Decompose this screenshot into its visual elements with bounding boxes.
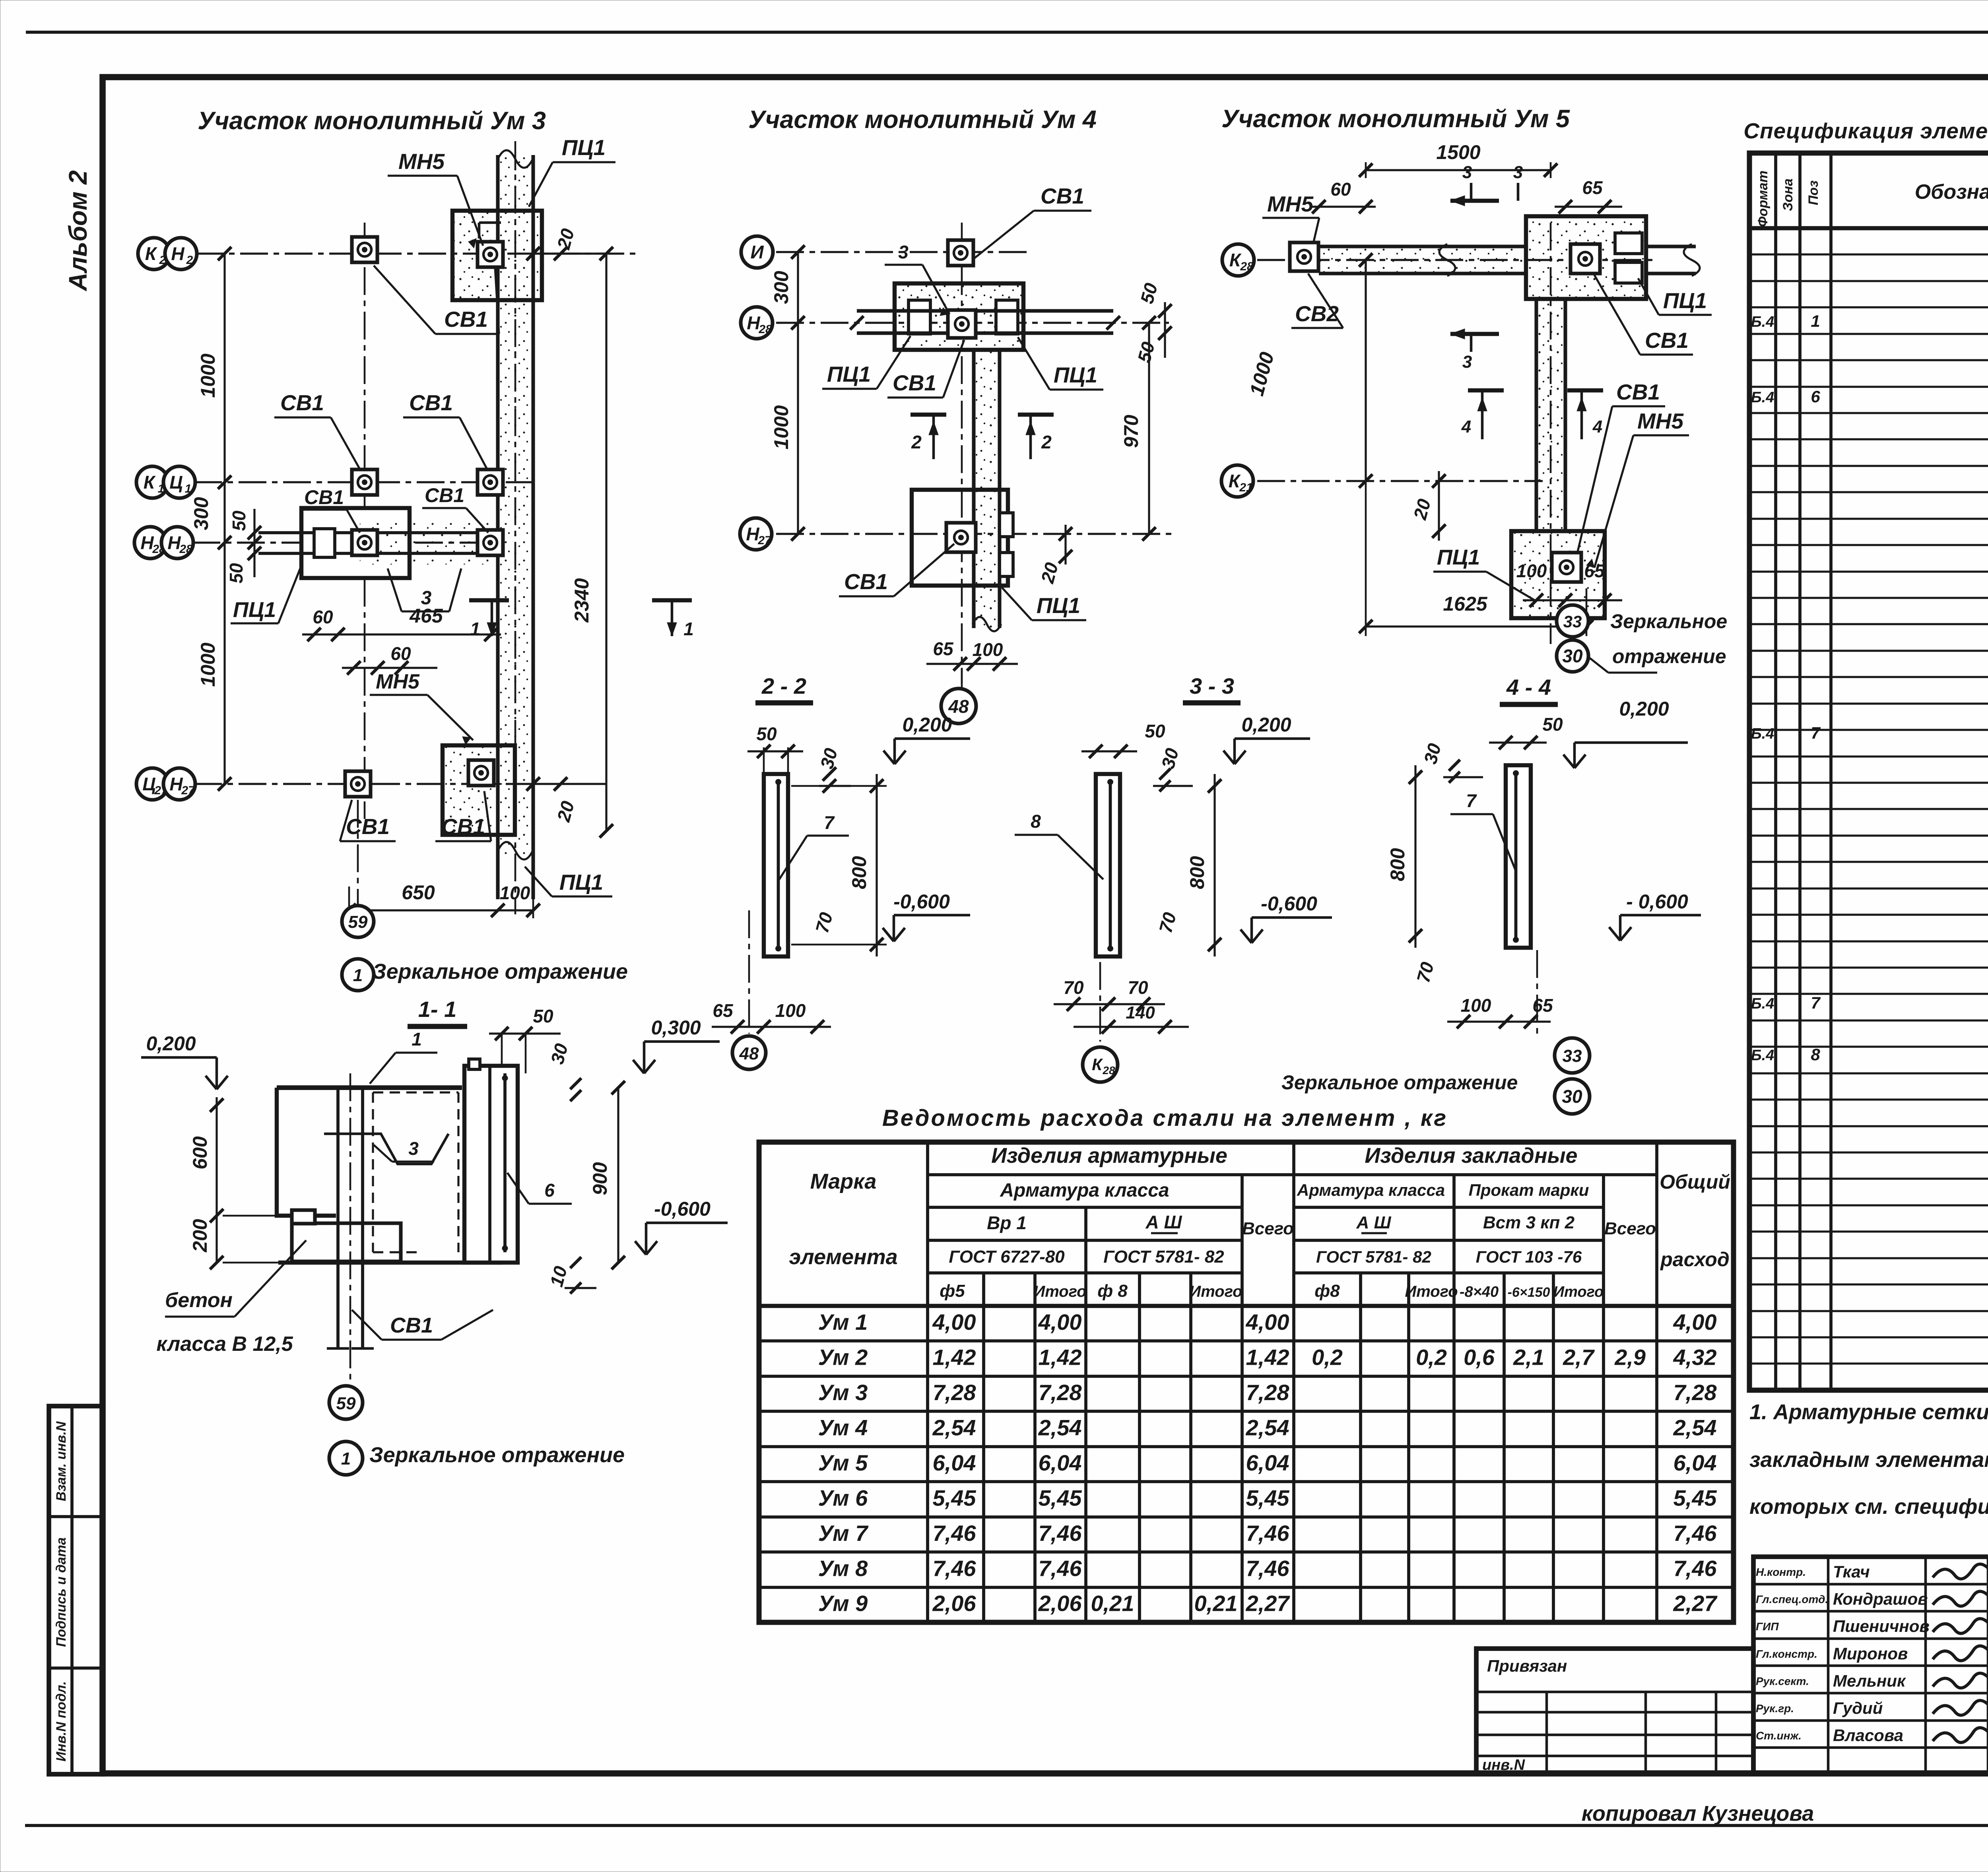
svg-text:7,28: 7,28 bbox=[1039, 1380, 1082, 1405]
svg-text:0,2: 0,2 bbox=[1416, 1345, 1447, 1370]
left stamp boxes bbox=[49, 1406, 103, 1774]
svg-text:К: К bbox=[1229, 250, 1242, 270]
Um3 axis K2/N2 bbox=[196, 252, 640, 254]
svg-text:ф 8: ф 8 bbox=[1097, 1281, 1128, 1301]
section 1-1 mirror circles bbox=[329, 1386, 363, 1419]
Um4 axis N27 bbox=[776, 533, 1173, 535]
svg-text:8: 8 bbox=[1031, 811, 1041, 832]
Um3 section mark 1 right bbox=[652, 598, 692, 602]
svg-text:Арматура класса: Арматура класса bbox=[1000, 1180, 1169, 1201]
svg-text:Спецификация элементов на м: Спецификация элементов на монолитные уча… bbox=[1743, 118, 1988, 143]
section 2-2 dim 30 bbox=[819, 785, 851, 787]
section 4-4 bottom dims bbox=[1447, 1020, 1551, 1022]
svg-text:Обозначение: Обозначение bbox=[1915, 180, 1988, 204]
section 4-4 mirror circles bbox=[1555, 1038, 1590, 1073]
section 1-1 trough shape bbox=[324, 1134, 448, 1164]
svg-text:Изделия закладные: Изделия закладные bbox=[1365, 1144, 1577, 1168]
svg-text:28: 28 bbox=[1240, 260, 1254, 273]
svg-text:Рук.сект.: Рук.сект. bbox=[1756, 1675, 1809, 1687]
svg-text:А Ш: А Ш bbox=[1356, 1213, 1391, 1232]
svg-text:Зона: Зона bbox=[1780, 178, 1796, 211]
svg-text:Поз: Поз bbox=[1806, 180, 1821, 206]
svg-text:4: 4 bbox=[1461, 417, 1471, 436]
svg-text:Власова: Власова bbox=[1833, 1726, 1903, 1745]
svg-text:3: 3 bbox=[1462, 163, 1472, 182]
svg-text:СВ1: СВ1 bbox=[346, 814, 390, 839]
svg-text:Ум 6: Ум 6 bbox=[818, 1485, 868, 1510]
svg-text:- 0,600: - 0,600 bbox=[1626, 890, 1688, 913]
svg-text:СВ1: СВ1 bbox=[425, 484, 464, 506]
steel table verticals bbox=[926, 1142, 929, 1622]
Um3 bottom dim 650/100 bbox=[349, 909, 533, 911]
svg-text:27: 27 bbox=[181, 784, 195, 797]
svg-text:1625: 1625 bbox=[1443, 593, 1487, 615]
svg-text:К: К bbox=[1229, 471, 1241, 491]
svg-text:50: 50 bbox=[756, 724, 777, 744]
svg-text:65: 65 bbox=[1532, 995, 1553, 1016]
svg-text:7: 7 bbox=[1811, 993, 1821, 1012]
svg-text:0,21: 0,21 bbox=[1091, 1591, 1134, 1616]
svg-text:1500: 1500 bbox=[1436, 141, 1480, 163]
svg-text:7,46: 7,46 bbox=[1039, 1521, 1082, 1546]
svg-text:ПЦ1: ПЦ1 bbox=[562, 135, 606, 160]
svg-text:Вст 3 кп 2: Вст 3 кп 2 bbox=[1483, 1213, 1575, 1232]
svg-text:Гл.спец.отд.: Гл.спец.отд. bbox=[1756, 1593, 1828, 1606]
svg-text:6,04: 6,04 bbox=[933, 1450, 976, 1475]
Um5 axis K28 bbox=[1257, 259, 1654, 261]
Um3 dims 60/465 row bbox=[302, 633, 501, 635]
svg-text:33: 33 bbox=[1563, 1046, 1582, 1066]
svg-text:копировал Кузнецова: копировал Кузнецова bbox=[1582, 1802, 1814, 1825]
Um4 section marks 2 bbox=[911, 413, 946, 417]
svg-text:2,27: 2,27 bbox=[1246, 1591, 1291, 1616]
svg-text:Всего: Всего bbox=[1242, 1219, 1294, 1238]
svg-text:Ум 3: Ум 3 bbox=[818, 1380, 868, 1405]
svg-text:2 - 2: 2 - 2 bbox=[761, 673, 806, 698]
svg-text:Участок монолитный Ум 3: Участок монолитный Ум 3 bbox=[198, 107, 546, 135]
paper top edge bbox=[26, 31, 1988, 34]
svg-text:Н.контр.: Н.контр. bbox=[1756, 1566, 1806, 1578]
Um3 left square centerline bbox=[364, 223, 366, 819]
svg-text:7,46: 7,46 bbox=[933, 1521, 977, 1546]
svg-text:50: 50 bbox=[1542, 714, 1563, 735]
Um3 column strip PTs1 bbox=[498, 155, 533, 855]
svg-text:2,54: 2,54 bbox=[932, 1415, 976, 1440]
Um3 dims left chain bbox=[223, 254, 225, 784]
section 1-1 column lines below bbox=[336, 1088, 340, 1348]
svg-text:Изделия арматурные: Изделия арматурные bbox=[991, 1144, 1227, 1168]
svg-text:100: 100 bbox=[500, 883, 530, 903]
Um4 lower anchor bbox=[946, 523, 976, 552]
svg-text:4,00: 4,00 bbox=[1246, 1309, 1289, 1335]
svg-text:Участок монолитный Ум: Участок монолитный Ум 4 bbox=[748, 106, 1097, 134]
svg-text:800: 800 bbox=[1386, 848, 1409, 881]
Um4 dim 20 bbox=[1064, 525, 1066, 565]
svg-text:1,42: 1,42 bbox=[1039, 1345, 1082, 1370]
svg-text:Итого: Итого bbox=[1033, 1283, 1086, 1300]
svg-text:60: 60 bbox=[390, 643, 411, 664]
svg-text:465: 465 bbox=[409, 605, 443, 627]
svg-text:7,28: 7,28 bbox=[1673, 1380, 1717, 1405]
svg-text:50: 50 bbox=[229, 510, 249, 531]
svg-text:4 - 4: 4 - 4 bbox=[1506, 675, 1551, 700]
svg-text:Н: Н bbox=[747, 312, 760, 333]
svg-text:33: 33 bbox=[1563, 612, 1582, 631]
svg-text:Б.4: Б.4 bbox=[1751, 726, 1774, 742]
svg-text:6: 6 bbox=[544, 1180, 555, 1201]
Um5 dim 1500 bbox=[1366, 169, 1551, 171]
section 1-1 insert plate bbox=[292, 1210, 315, 1224]
svg-text:2,27: 2,27 bbox=[1673, 1591, 1718, 1616]
svg-text:1000: 1000 bbox=[197, 353, 219, 398]
svg-text:Итого: Итого bbox=[1553, 1284, 1604, 1300]
svg-text:Миронов: Миронов bbox=[1833, 1644, 1908, 1663]
svg-text:2340: 2340 bbox=[571, 578, 593, 623]
svg-text:ПЦ1: ПЦ1 bbox=[1037, 593, 1080, 618]
section 3-3 panel bbox=[1096, 774, 1120, 956]
section 1-1 panel rebar bbox=[503, 1073, 507, 1252]
svg-text:7,46: 7,46 bbox=[1673, 1556, 1717, 1581]
svg-text:7,46: 7,46 bbox=[1673, 1521, 1717, 1546]
section 2-2 bottom dims bbox=[712, 1026, 831, 1028]
Um5 section marks 3 bottom bbox=[1450, 332, 1499, 336]
svg-text:СВ1: СВ1 bbox=[409, 390, 453, 415]
svg-text:Мельник: Мельник bbox=[1833, 1671, 1906, 1690]
svg-text:650: 650 bbox=[402, 881, 435, 904]
svg-text:расход: расход bbox=[1660, 1248, 1730, 1271]
svg-text:50: 50 bbox=[226, 563, 247, 584]
svg-text:1: 1 bbox=[185, 482, 192, 495]
svg-text:59: 59 bbox=[348, 912, 368, 932]
svg-text:21: 21 bbox=[1239, 481, 1252, 494]
svg-text:3: 3 bbox=[1513, 163, 1523, 182]
svg-text:Вр 1: Вр 1 bbox=[987, 1212, 1027, 1233]
svg-text:ПЦ1: ПЦ1 bbox=[1663, 288, 1707, 313]
svg-text:СВ1: СВ1 bbox=[444, 307, 488, 332]
svg-text:Арматура класса: Арматура класса bbox=[1297, 1181, 1445, 1199]
svg-text:Альбом 2: Альбом 2 bbox=[64, 170, 92, 291]
svg-text:2: 2 bbox=[911, 432, 922, 452]
Um5 section marks 4 bbox=[1468, 388, 1504, 392]
Um5 bottom patch bbox=[1511, 531, 1605, 618]
Um3 strip centerline bbox=[514, 141, 516, 914]
svg-text:Ум 4: Ум 4 bbox=[818, 1415, 868, 1440]
svg-text:СВ1: СВ1 bbox=[304, 486, 344, 508]
svg-text:Марка: Марка bbox=[810, 1170, 877, 1193]
svg-text:1- 1: 1- 1 bbox=[418, 997, 457, 1022]
steel table frame bbox=[759, 1142, 1734, 1622]
svg-text:4,32: 4,32 bbox=[1673, 1345, 1717, 1370]
svg-text:60: 60 bbox=[1330, 179, 1351, 200]
svg-text:200: 200 bbox=[189, 1219, 211, 1253]
svg-text:А Ш: А Ш bbox=[1145, 1212, 1182, 1232]
svg-text:800: 800 bbox=[1186, 856, 1208, 889]
svg-text:7: 7 bbox=[824, 812, 835, 833]
svg-text:Взам. инв.N: Взам. инв.N bbox=[54, 1421, 69, 1501]
svg-text:Ум 9: Ум 9 bbox=[818, 1591, 868, 1616]
svg-text:Подпись и дата: Подпись и дата bbox=[54, 1537, 69, 1647]
Um5 dim 65 top bbox=[1555, 206, 1622, 208]
svg-text:0,300: 0,300 bbox=[651, 1017, 701, 1039]
svg-text:65: 65 bbox=[712, 1000, 734, 1021]
section 1-1 body outline bbox=[277, 1085, 462, 1090]
svg-text:7,46: 7,46 bbox=[1039, 1556, 1082, 1581]
spec table frame bbox=[1749, 153, 1988, 1390]
Um4 dims 50/50 bbox=[1164, 302, 1166, 358]
Um5 right beam stub bbox=[1646, 244, 1696, 248]
svg-text:1: 1 bbox=[683, 619, 694, 639]
svg-text:Привязан: Привязан bbox=[1487, 1657, 1567, 1675]
svg-text:СВ1: СВ1 bbox=[280, 390, 324, 415]
svg-text:Б.4: Б.4 bbox=[1751, 995, 1774, 1012]
svg-text:СВ1: СВ1 bbox=[441, 814, 485, 839]
svg-text:5,45: 5,45 bbox=[1039, 1485, 1082, 1510]
svg-text:70: 70 bbox=[1128, 977, 1148, 998]
svg-text:инв.N: инв.N bbox=[1482, 1757, 1526, 1773]
Um4 bottom dims 65/100 bbox=[926, 663, 1018, 665]
svg-text:Н: Н bbox=[169, 774, 183, 794]
Um4 central anchor bbox=[948, 310, 976, 338]
Um3 N28 beam assembly bbox=[301, 508, 410, 578]
Um5 dim 60 bbox=[1312, 206, 1376, 208]
Um3 top patch bbox=[452, 211, 542, 300]
Um4 axis I bbox=[776, 251, 1030, 253]
svg-text:27: 27 bbox=[757, 534, 772, 547]
svg-text:-6×150: -6×150 bbox=[1508, 1285, 1550, 1300]
svg-text:Зеркальное: Зеркальное bbox=[1610, 610, 1727, 632]
Um3 K1-row anchors bbox=[352, 469, 377, 495]
Um5 axis K21 bbox=[1257, 480, 1543, 482]
svg-text:Рук.гр.: Рук.гр. bbox=[1756, 1702, 1794, 1715]
Um3 dim 20 top bbox=[533, 252, 606, 254]
spec table row grid bbox=[1749, 253, 1988, 255]
svg-text:7,28: 7,28 bbox=[933, 1380, 977, 1405]
svg-text:7: 7 bbox=[1811, 724, 1821, 742]
svg-text:140: 140 bbox=[1126, 1003, 1155, 1022]
Um3 dim 2340 bbox=[605, 254, 607, 831]
svg-text:100: 100 bbox=[1516, 561, 1547, 581]
Um3 axis N28 bbox=[192, 541, 499, 543]
svg-text:30: 30 bbox=[1562, 1086, 1582, 1107]
svg-text:закладным элементам МН5: закладным элементам МН5 и стержню поз. 3… bbox=[1749, 1448, 1988, 1472]
svg-text:100: 100 bbox=[775, 1000, 806, 1021]
Um3 axis N27 bbox=[194, 783, 533, 785]
Um4 vert centerline bbox=[961, 223, 963, 684]
svg-text:И: И bbox=[750, 242, 764, 262]
svg-text:СВ1: СВ1 bbox=[1645, 328, 1689, 353]
svg-text:2,7: 2,7 bbox=[1563, 1345, 1595, 1370]
svg-text:СВ1: СВ1 bbox=[390, 1313, 433, 1337]
svg-text:2,06: 2,06 bbox=[1038, 1591, 1082, 1616]
svg-text:Ведомость расхода стали: Ведомость расхода стали на элемент , кг bbox=[882, 1105, 1448, 1131]
Um3 section mark 1 left bbox=[469, 598, 509, 602]
svg-text:6,04: 6,04 bbox=[1039, 1450, 1082, 1475]
svg-text:2,9: 2,9 bbox=[1614, 1345, 1646, 1370]
svg-text:Б.4: Б.4 bbox=[1751, 1047, 1774, 1064]
Um5 bottom dims 100/65 bbox=[1523, 599, 1622, 601]
svg-text:Зеркальное отражение: Зеркальное отражение bbox=[369, 1443, 625, 1467]
svg-text:3 - 3: 3 - 3 bbox=[1190, 673, 1234, 698]
svg-text:0,200: 0,200 bbox=[902, 714, 952, 736]
svg-text:100: 100 bbox=[973, 639, 1003, 660]
Um5 mirror circles bbox=[1586, 603, 1587, 636]
svg-text:7,28: 7,28 bbox=[1246, 1380, 1290, 1405]
svg-text:Н: Н bbox=[167, 532, 181, 553]
svg-text:7,46: 7,46 bbox=[1246, 1521, 1290, 1546]
svg-text:Ум 2: Ум 2 bbox=[818, 1345, 868, 1370]
svg-text:-8×40: -8×40 bbox=[1460, 1284, 1499, 1300]
Um5 bottom anchor bbox=[1552, 553, 1581, 582]
svg-text:Прокат марки: Прокат марки bbox=[1469, 1181, 1589, 1199]
Um5 strip centerline bbox=[1550, 223, 1552, 644]
svg-text:Итого: Итого bbox=[1189, 1283, 1242, 1300]
svg-text:6,04: 6,04 bbox=[1673, 1450, 1717, 1475]
svg-text:Ткач: Ткач bbox=[1833, 1562, 1870, 1581]
section 1-1 centerline bbox=[349, 1073, 351, 1379]
svg-text:ПЦ1: ПЦ1 bbox=[233, 598, 276, 622]
svg-text:4,00: 4,00 bbox=[1673, 1309, 1717, 1335]
svg-text:ПЦ1: ПЦ1 bbox=[1054, 363, 1097, 387]
svg-text:Общий: Общий bbox=[1660, 1171, 1730, 1193]
svg-text:класса В 12,5: класса В 12,5 bbox=[156, 1333, 293, 1356]
svg-text:48: 48 bbox=[739, 1044, 759, 1063]
svg-text:28: 28 bbox=[758, 323, 772, 336]
Um4 column strip bbox=[974, 350, 1000, 628]
svg-text:65: 65 bbox=[933, 638, 954, 659]
svg-text:Гудий: Гудий bbox=[1833, 1699, 1883, 1717]
svg-text:7,46: 7,46 bbox=[1246, 1556, 1290, 1581]
svg-text:которых см. спецификации: которых см. спецификации на листах 25...… bbox=[1749, 1495, 1988, 1519]
svg-text:2,54: 2,54 bbox=[1038, 1415, 1082, 1440]
svg-text:50: 50 bbox=[1145, 721, 1165, 741]
svg-text:600: 600 bbox=[189, 1136, 211, 1170]
svg-text:4,00: 4,00 bbox=[1038, 1309, 1082, 1335]
svg-text:Ц: Ц bbox=[169, 472, 183, 493]
svg-text:К: К bbox=[1092, 1055, 1103, 1074]
svg-text:Инв.N подл.: Инв.N подл. bbox=[54, 1681, 69, 1761]
Um5 dim 1625 bbox=[1366, 625, 1586, 627]
svg-text:1: 1 bbox=[1811, 312, 1820, 330]
svg-text:СВ1: СВ1 bbox=[1616, 380, 1660, 404]
Um5 dim 20 bbox=[1438, 471, 1440, 541]
svg-text:2,54: 2,54 bbox=[1673, 1415, 1717, 1440]
svg-text:28: 28 bbox=[179, 543, 193, 556]
svg-text:1. Арматурные сетки монол: 1. Арматурные сетки монолитных участков … bbox=[1749, 1400, 1988, 1424]
svg-text:Н: Н bbox=[746, 524, 759, 544]
steel table header lines bbox=[928, 1173, 1657, 1176]
section 2-2 panel bbox=[764, 774, 788, 956]
section 4-4 panel bbox=[1506, 765, 1531, 948]
Um3 dim 20 bottom bbox=[533, 783, 606, 785]
svg-text:800: 800 bbox=[848, 856, 870, 889]
svg-text:30: 30 bbox=[1562, 646, 1583, 666]
svg-text:Б.4: Б.4 bbox=[1751, 389, 1774, 406]
svg-text:К: К bbox=[144, 472, 156, 493]
svg-text:МН5: МН5 bbox=[1637, 409, 1684, 433]
svg-text:МН5: МН5 bbox=[1267, 192, 1314, 216]
Um5 section marks 3 top bbox=[1450, 199, 1499, 203]
Um4 dims left chain bbox=[797, 252, 799, 534]
svg-text:-0,600: -0,600 bbox=[1261, 892, 1317, 915]
svg-text:1,42: 1,42 bbox=[933, 1345, 976, 1370]
section 1-1 panel right bbox=[464, 1066, 518, 1263]
svg-text:1: 1 bbox=[341, 1449, 351, 1469]
svg-text:Б.4: Б.4 bbox=[1751, 314, 1774, 330]
svg-text:300: 300 bbox=[190, 497, 212, 530]
svg-text:СВ1: СВ1 bbox=[844, 569, 888, 594]
svg-text:элемента: элемента bbox=[789, 1245, 897, 1269]
svg-text:300: 300 bbox=[770, 271, 792, 304]
svg-text:1000: 1000 bbox=[197, 642, 219, 687]
svg-text:3: 3 bbox=[408, 1138, 419, 1159]
svg-text:Гл.констр.: Гл.констр. bbox=[1756, 1648, 1817, 1660]
svg-text:ГОСТ 103 -76: ГОСТ 103 -76 bbox=[1476, 1247, 1582, 1266]
svg-text:2,54: 2,54 bbox=[1246, 1415, 1289, 1440]
svg-text:1: 1 bbox=[353, 966, 363, 985]
svg-text:28: 28 bbox=[1102, 1064, 1115, 1077]
Um4 top anchor bbox=[948, 240, 973, 266]
svg-text:ГИП: ГИП bbox=[1756, 1620, 1779, 1633]
svg-text:Пшеничнов: Пшеничнов bbox=[1833, 1617, 1930, 1635]
svg-text:Н: Н bbox=[140, 532, 154, 553]
Um4 top patch bbox=[895, 283, 1023, 350]
svg-text:5,45: 5,45 bbox=[1673, 1485, 1717, 1510]
Um4 node circle 48 bbox=[961, 668, 963, 689]
svg-text:4: 4 bbox=[1592, 417, 1602, 436]
section 4-4 dim 800 bbox=[1414, 765, 1416, 948]
Um5 top patch bbox=[1526, 216, 1646, 299]
svg-text:0,200: 0,200 bbox=[1619, 698, 1669, 720]
svg-text:Зеркальное отражение: Зеркальное отражение bbox=[1281, 1071, 1518, 1094]
svg-text:8: 8 bbox=[1811, 1045, 1820, 1064]
section 1-1 dim 900 bbox=[617, 1088, 619, 1263]
svg-text:1: 1 bbox=[470, 619, 480, 639]
svg-text:0,2: 0,2 bbox=[1312, 1345, 1343, 1370]
svg-text:3: 3 bbox=[1462, 352, 1472, 372]
svg-text:970: 970 bbox=[1120, 415, 1142, 448]
svg-text:Ц: Ц bbox=[142, 774, 156, 794]
svg-text:Н: Н bbox=[171, 243, 184, 264]
svg-text:59: 59 bbox=[336, 1394, 356, 1413]
svg-text:900: 900 bbox=[589, 1162, 611, 1195]
svg-text:К: К bbox=[145, 243, 157, 264]
section 1-1 hidden lines bbox=[373, 1091, 458, 1093]
svg-text:ф8: ф8 bbox=[1314, 1281, 1340, 1301]
Um5 vertical strip bbox=[1536, 299, 1565, 531]
Um3 mirror note circles bbox=[342, 906, 374, 937]
svg-text:ПЦ1: ПЦ1 bbox=[1437, 545, 1480, 569]
section 2-2 node 48 bbox=[732, 1036, 766, 1069]
svg-text:2: 2 bbox=[186, 254, 193, 267]
Um3 dims 60/60 row bbox=[342, 667, 437, 669]
svg-text:3: 3 bbox=[898, 242, 909, 262]
section 3-3 dim 800 bbox=[1213, 774, 1215, 956]
svg-text:-0,600: -0,600 bbox=[893, 890, 950, 913]
svg-text:60: 60 bbox=[313, 607, 333, 627]
svg-text:ГОСТ 6727-80: ГОСТ 6727-80 bbox=[949, 1247, 1065, 1267]
svg-text:5,45: 5,45 bbox=[933, 1485, 977, 1510]
svg-text:Кондрашов: Кондрашов bbox=[1833, 1590, 1928, 1608]
svg-text:ф5: ф5 bbox=[940, 1281, 965, 1301]
svg-text:6: 6 bbox=[1811, 387, 1820, 406]
svg-text:МН5: МН5 bbox=[398, 149, 445, 174]
Um4 dim 970 bbox=[1148, 323, 1150, 534]
svg-text:бетон: бетон bbox=[165, 1289, 233, 1312]
svg-text:100: 100 bbox=[1461, 995, 1491, 1016]
svg-text:ПЦ1: ПЦ1 bbox=[559, 870, 603, 894]
Um3 bottom anchors bbox=[345, 771, 371, 797]
svg-text:1000: 1000 bbox=[770, 405, 792, 449]
